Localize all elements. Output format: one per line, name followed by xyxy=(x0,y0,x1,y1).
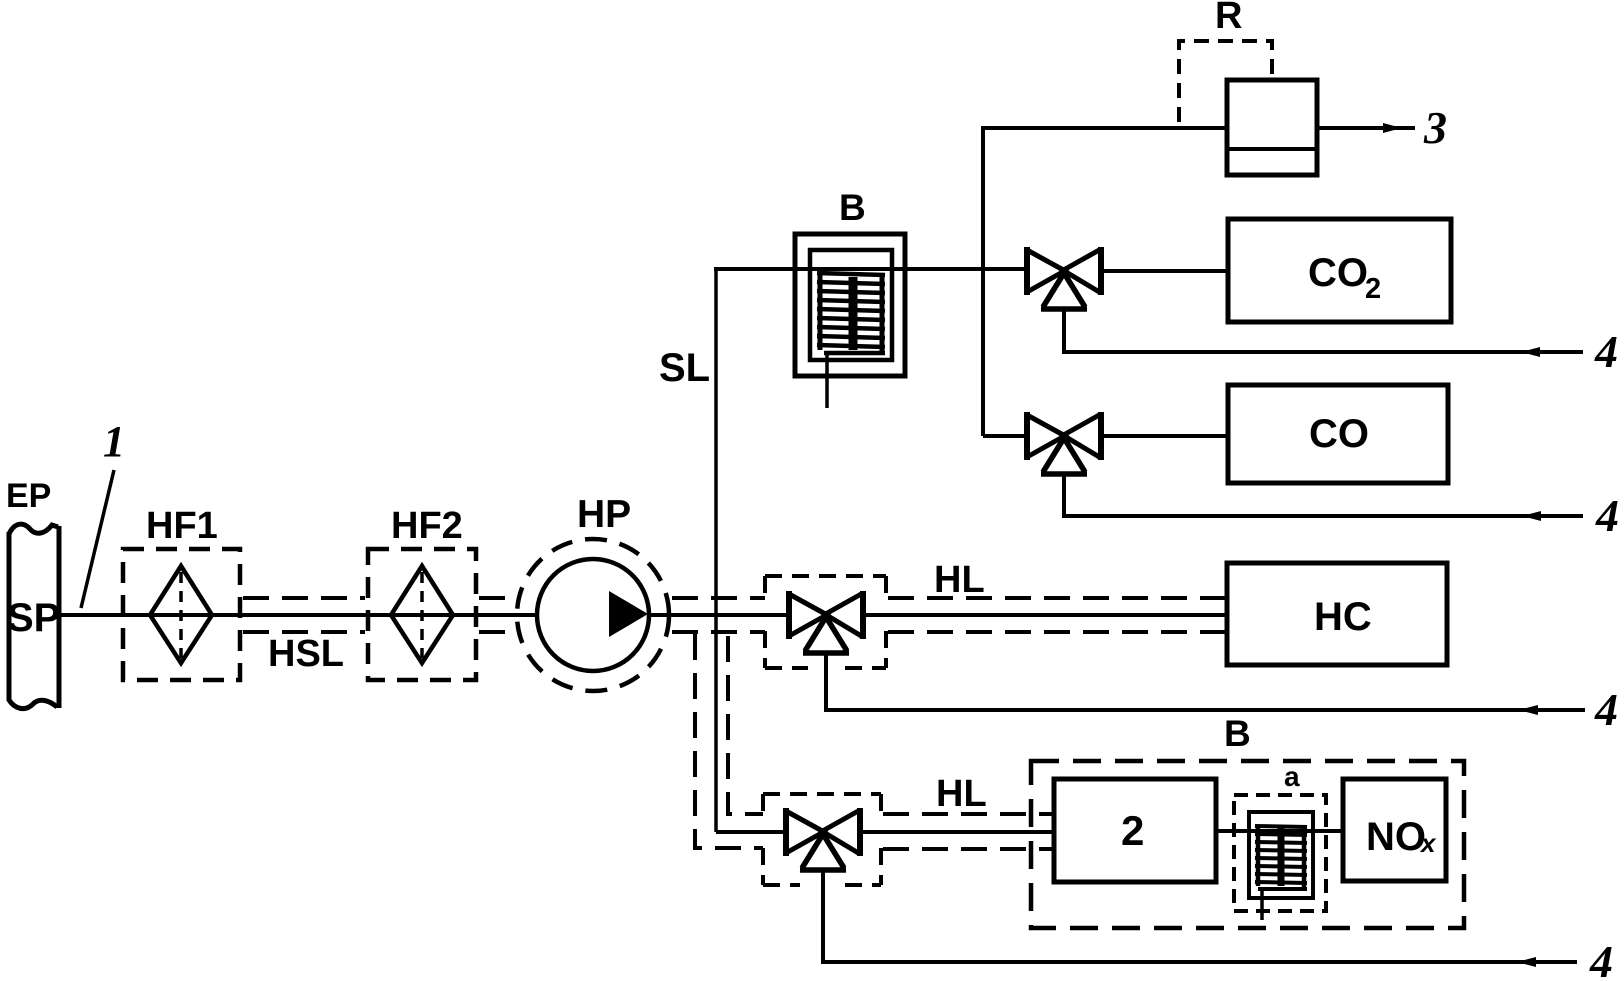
svg-text:HF2: HF2 xyxy=(391,505,463,547)
arrow on line 4b xyxy=(1522,511,1541,521)
arrow to 3 xyxy=(1383,123,1402,133)
heated drop line dashes to V4 xyxy=(695,634,763,848)
label CO2 xyxy=(1308,251,1381,305)
valve V1 (CO2 branch) xyxy=(1027,247,1101,309)
flowmeter R box xyxy=(1227,80,1317,175)
svg-text:HF1: HF1 xyxy=(146,505,218,547)
wire valve V3 to HC box xyxy=(863,613,1227,617)
analyzer CO2 box xyxy=(1228,219,1451,322)
svg-text:2: 2 xyxy=(1121,807,1144,854)
svg-text:SL: SL xyxy=(659,346,710,390)
wire V4 stem to span gas line 4 xyxy=(823,870,1577,962)
heated dashes pump to valve xyxy=(672,598,765,632)
wire valve V2 to CO box xyxy=(1101,434,1228,438)
arrow on line 4a xyxy=(1521,347,1540,357)
wire pump to HC valve xyxy=(648,613,791,617)
heated line dashes HSL xyxy=(243,598,515,632)
label NOx xyxy=(1366,815,1437,859)
svg-text:SP: SP xyxy=(7,596,60,640)
cooler B coil xyxy=(817,273,885,353)
svg-text:2: 2 xyxy=(1365,273,1381,305)
arrow on line 4d xyxy=(1517,957,1536,967)
svg-text:1: 1 xyxy=(103,417,125,466)
arrow on line 4c xyxy=(1519,705,1538,715)
wire flowmeter to outlet 3 xyxy=(1317,126,1415,130)
analyzer NOx box xyxy=(1343,779,1446,881)
svg-text:CO: CO xyxy=(1309,412,1369,456)
heated dashes HL to converter xyxy=(883,814,1054,849)
riser to flowmeter R xyxy=(983,128,1229,436)
cooler a drain xyxy=(1260,888,1264,920)
svg-text:HL: HL xyxy=(934,559,985,601)
exhaust pipe EP xyxy=(9,524,59,709)
wire SL to valve V4 xyxy=(716,830,788,834)
valve V4 (NOx branch) xyxy=(786,808,860,870)
wire V2 stem to span gas line 4 xyxy=(1064,474,1583,516)
wire V1 stem to span gas line 4 xyxy=(1064,309,1583,352)
svg-text:HL: HL xyxy=(936,773,987,815)
valve V2 (CO branch) xyxy=(1027,412,1101,474)
heated enclosure around V4 xyxy=(763,794,881,885)
svg-text:CO: CO xyxy=(1308,251,1368,295)
wire valve V4 to converter 2 xyxy=(860,830,1054,834)
filter HF1 xyxy=(123,549,240,680)
heated enclosure around V3 xyxy=(765,576,886,668)
cooler B outer box xyxy=(795,234,905,376)
svg-text:EP: EP xyxy=(6,477,51,515)
analyzer HC box xyxy=(1227,563,1447,665)
pump HP xyxy=(517,539,669,691)
wire riser to V2 xyxy=(983,434,1027,438)
cooler a coil xyxy=(1255,826,1307,889)
wire HF1 to HF2 (solid core) xyxy=(126,613,539,617)
svg-text:NO: NO xyxy=(1366,815,1426,859)
flowmeter R dashed bracket xyxy=(1179,41,1272,122)
analyzer group B dashed box xyxy=(1031,761,1464,928)
wire valve V1 to CO2 box xyxy=(1101,269,1228,273)
svg-text:R: R xyxy=(1215,0,1242,37)
wire converter 2 to NOx box xyxy=(1216,829,1343,833)
cooler B drain xyxy=(825,351,829,408)
svg-text:x: x xyxy=(1419,828,1437,858)
analyzer CO box xyxy=(1228,385,1448,483)
svg-text:4: 4 xyxy=(1594,684,1618,735)
filter HF2 xyxy=(368,549,476,680)
svg-text:4: 4 xyxy=(1594,326,1618,377)
heated dashes HL to HC xyxy=(888,598,1227,632)
cooler a inner box xyxy=(1249,812,1313,898)
wire SL top horizontal to CO2 valve xyxy=(714,267,1027,271)
converter 2 box xyxy=(1054,779,1216,882)
valve V3 (HC branch) xyxy=(789,591,863,653)
svg-text:HSL: HSL xyxy=(268,633,344,675)
svg-text:B: B xyxy=(1224,713,1251,754)
svg-text:4: 4 xyxy=(1589,936,1613,981)
svg-text:4: 4 xyxy=(1595,490,1619,541)
wire V3 stem to span gas line 4 xyxy=(826,653,1585,710)
svg-text:HC: HC xyxy=(1314,595,1372,639)
svg-text:HP: HP xyxy=(577,493,631,536)
svg-text:B: B xyxy=(839,187,866,228)
svg-text:a: a xyxy=(1284,761,1300,792)
cooler a dashed box xyxy=(1234,795,1326,911)
leader line for 1 xyxy=(81,470,114,608)
sample line SL vertical xyxy=(714,269,718,832)
wire SP to HF1 xyxy=(59,613,126,617)
cooler B inner box xyxy=(810,250,892,360)
svg-text:3: 3 xyxy=(1423,102,1447,153)
